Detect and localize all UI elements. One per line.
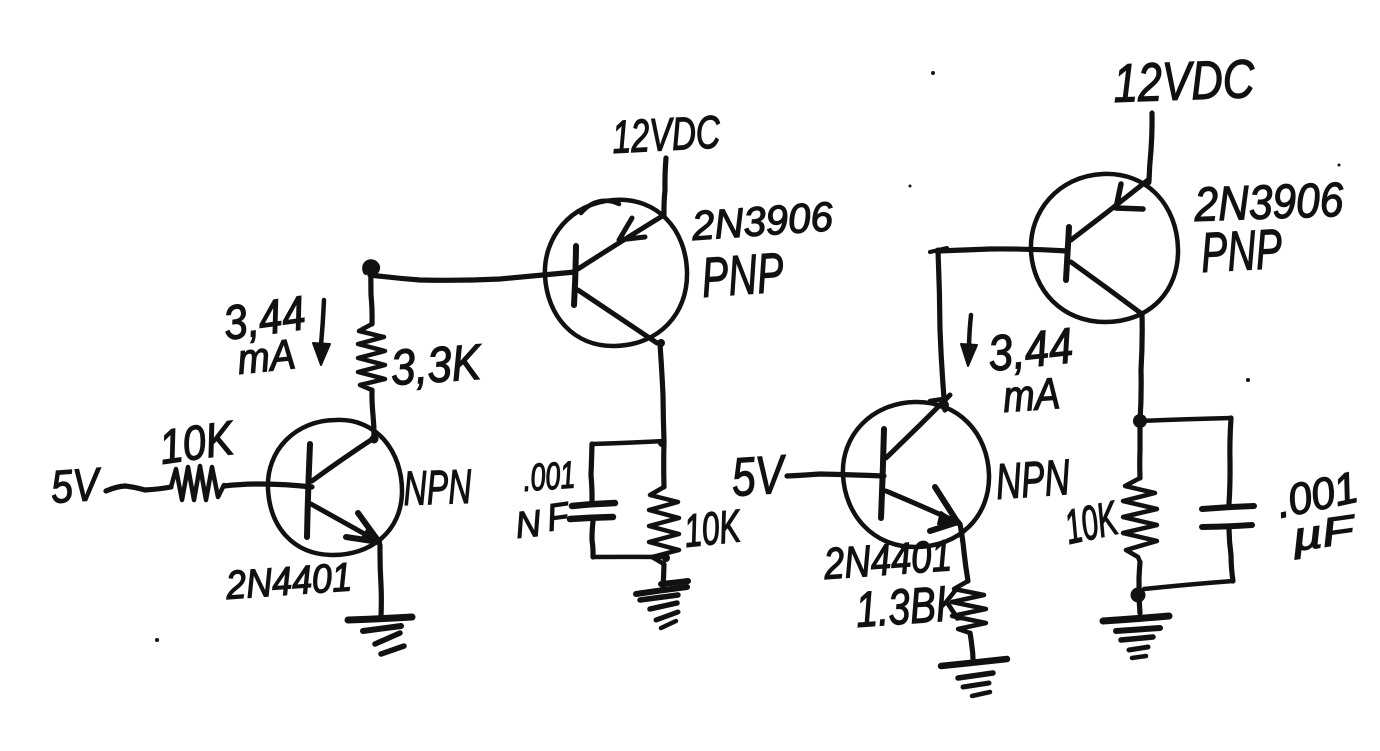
svg-text:PNP: PNP [1199,217,1283,284]
svg-text:N: N [514,503,543,546]
svg-text:.001: .001 [522,454,577,500]
svg-text:PNP: PNP [699,240,785,309]
svg-text:10K: 10K [156,412,238,475]
svg-text:mA: mA [1001,369,1061,422]
svg-text:3,3K: 3,3K [389,334,485,396]
svg-text:5V: 5V [49,457,104,512]
svg-text:µF: µF [1288,507,1360,560]
svg-text:12VDC: 12VDC [1112,49,1256,114]
svg-text:NPN: NPN [994,449,1072,510]
svg-text:NPN: NPN [403,461,473,516]
svg-text:1.3BK: 1.3BK [854,575,966,638]
svg-text:5V: 5V [730,444,790,508]
svg-text:mA: mA [235,330,298,383]
svg-text:2N4401: 2N4401 [224,555,354,608]
svg-text:12VDC: 12VDC [611,105,722,163]
